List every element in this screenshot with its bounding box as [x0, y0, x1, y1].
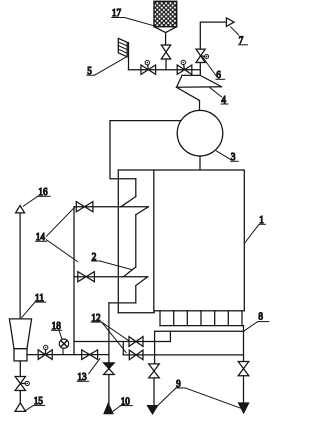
label 1 — [245, 214, 265, 243]
label 7 — [231, 27, 248, 47]
top header pipe — [129, 69, 201, 71]
label 15 — [26, 395, 45, 410]
label 8 — [244, 311, 269, 331]
black valve on drain riser — [104, 355, 115, 404]
riser to pump 3 — [199, 101, 201, 111]
sight glass 5 (hatched) — [118, 38, 128, 69]
pump/blower 3 (circle) — [177, 110, 223, 156]
valve under hopper 17 — [161, 45, 170, 70]
drain line lower with valve 12b — [123, 350, 243, 360]
spray pipe upper with valve 14a — [74, 202, 148, 212]
outlet arrow 9 right (solid down) — [239, 403, 249, 413]
label 3 — [216, 151, 238, 163]
valve B with actuator — [177, 60, 192, 74]
inner dip pipe 2 lower — [136, 277, 148, 303]
valve A with actuator — [141, 61, 156, 75]
label 6 — [203, 58, 225, 82]
label 14 — [36, 207, 78, 261]
nozzle row under vessel — [160, 311, 244, 331]
hopper/filter 17 (checkered box) — [154, 1, 177, 45]
outlet triangle 15 (open) — [15, 391, 26, 412]
valve 15 (vertical, actuator right) — [15, 377, 29, 391]
valve 13 — [82, 350, 98, 360]
label 16 — [23, 186, 50, 206]
label 11 — [22, 292, 46, 318]
label 5 — [87, 57, 127, 78]
label 18 — [51, 320, 61, 339]
label 10 — [113, 395, 133, 411]
cyclone hopper 11 — [9, 319, 31, 361]
instrument 18 (circle-x) — [59, 339, 68, 355]
vent arrow 16 — [16, 206, 25, 319]
valve 6 (vertical, actuator right) — [196, 49, 209, 62]
label 13 — [77, 359, 100, 384]
pipe from pump left to jacket inlet — [110, 121, 181, 179]
right bottom outlet with valve — [238, 362, 249, 404]
pipe pump bottom to vessel top — [199, 156, 201, 170]
jacket drain staircase — [109, 303, 136, 355]
vessel 1 (main rectangle) — [154, 170, 245, 311]
valve C with actuator — [38, 345, 52, 359]
inner dip pipe 2 middle — [124, 207, 149, 277]
riser to vent arrow 7 — [200, 18, 234, 49]
svg-text:8: 8 — [258, 311, 263, 323]
hopper bottom pipe to flare 15 — [19, 361, 21, 377]
label 2 — [91, 251, 132, 270]
connector between drain lines — [122, 342, 124, 355]
label 4 — [210, 87, 228, 105]
inner dip pipe 2 upper — [121, 179, 136, 207]
wire below valve 6 — [199, 63, 201, 76]
left bottom outlet with valve — [149, 364, 160, 406]
discharge line from hopper — [27, 354, 109, 356]
label 9 — [156, 378, 241, 409]
label 17 — [112, 7, 156, 26]
outlet arrow 9 left (solid down) — [148, 406, 158, 414]
drain line upper with valve 12a — [74, 337, 170, 347]
left standpipe (valves 14 riser) — [73, 207, 75, 355]
break symbol 4 (zigzag) — [177, 75, 222, 100]
spray pipe lower with valve 14b — [74, 272, 148, 282]
jacket wall — [118, 170, 154, 313]
header box under nozzles — [155, 331, 244, 364]
label 12 — [91, 312, 129, 353]
outlet triangle 10 (solid) — [104, 404, 113, 414]
